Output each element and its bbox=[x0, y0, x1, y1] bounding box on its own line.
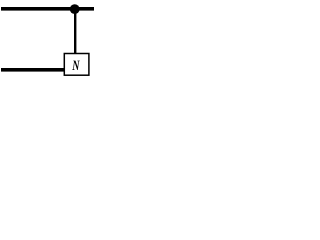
label N bbox=[72, 61, 80, 70]
wire: vertical drop from junction to box N bbox=[74, 9, 76, 54]
component box N bbox=[64, 54, 89, 76]
wire: top horizontal rail bbox=[1, 7, 94, 11]
node junction dot on top rail bbox=[70, 4, 80, 14]
wire: bottom horizontal rail bbox=[1, 68, 65, 72]
